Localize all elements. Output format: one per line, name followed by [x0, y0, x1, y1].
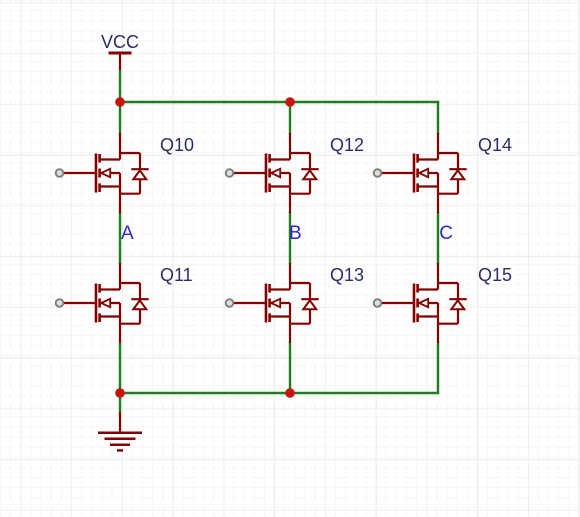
- svg-text:B: B: [289, 223, 302, 244]
- wire node B Q12 source to Q13 drain: [289, 212, 291, 264]
- junction VCC rail / Q10: [115, 97, 125, 107]
- transistor Q14: [374, 133, 467, 213]
- wire node C Q14 source to Q15 drain: [437, 212, 439, 264]
- wire VCC stub: [119, 70, 121, 103]
- transistor Q13: [226, 263, 319, 343]
- wire Q13 source to bottom bus: [289, 342, 291, 393]
- svg-text:Q10: Q10: [160, 135, 194, 155]
- transistor Q15: [374, 263, 467, 343]
- wire bottom bus: [119, 392, 439, 394]
- svg-text:C: C: [439, 223, 453, 244]
- power symbol VCC: [109, 53, 132, 70]
- wire top bus VCC rail: [119, 101, 439, 103]
- svg-text:Q12: Q12: [330, 135, 364, 155]
- wire bottom bus to ground: [119, 393, 121, 413]
- wire Q15 source to bottom bus: [437, 342, 439, 394]
- svg-text:A: A: [121, 223, 134, 244]
- wire top bus to Q12 drain: [289, 102, 291, 134]
- svg-text:VCC: VCC: [101, 32, 139, 52]
- wire top bus to Q10 drain: [119, 102, 121, 134]
- transistor Q11: [56, 263, 149, 343]
- svg-text:Q14: Q14: [478, 135, 512, 155]
- svg-text:Q15: Q15: [478, 265, 512, 285]
- ground: [98, 412, 142, 450]
- junction bottom bus / Q11: [115, 388, 125, 398]
- wire Q11 source to bottom bus: [119, 342, 121, 393]
- junction bottom bus / Q13: [285, 388, 295, 398]
- svg-text:Q13: Q13: [330, 265, 364, 285]
- wire top bus to Q14 drain: [437, 101, 439, 134]
- transistor Q10: [56, 133, 149, 213]
- transistor Q12: [226, 133, 319, 213]
- junction VCC rail / Q12: [285, 97, 295, 107]
- wire node A Q10 source to Q11 drain: [119, 212, 121, 264]
- svg-text:Q11: Q11: [160, 265, 193, 285]
